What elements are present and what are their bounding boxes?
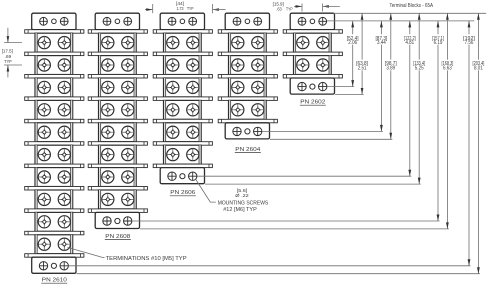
- PN 2608 bottom cap mounting hole: [115, 218, 120, 223]
- PN 2604 top cap screw right: [254, 17, 262, 25]
- PN 2610 terminal row 6: [35, 145, 73, 164]
- svg-text:TYP: TYP: [4, 59, 12, 64]
- PN 2608 barrier fin 8: [88, 187, 147, 191]
- terminal block PN 2610: [25, 13, 84, 283]
- PN 2608 terminal row 8: [99, 190, 137, 209]
- PN 2606 barrier fin 5: [153, 119, 212, 123]
- dimension [192] 7.56 overall to mounting screw centerline of PN 2610: [463, 21, 475, 266]
- label PN 2606: [170, 190, 196, 196]
- PN 2602 top end section: [290, 13, 334, 30]
- PN 2608 top cap screw left: [103, 17, 111, 25]
- PN 2604 top end section: [225, 13, 269, 30]
- extension line from PN 2604 mounting screw centerline: [262, 130, 383, 132]
- PN 2606 terminal row 4: [164, 100, 202, 119]
- PN 2606 barrier fin 1: [153, 30, 212, 34]
- PN 2610 bottom cap screw left: [39, 262, 47, 270]
- extension line from PN 2610 bottom edge: [77, 273, 480, 275]
- terminal block PN 2604: [218, 13, 277, 153]
- svg-text:#12 [M6] TYP: #12 [M6] TYP: [223, 207, 257, 213]
- PN 2606 barrier fin 3: [153, 75, 212, 79]
- PN 2604 bottom cap screw left: [233, 127, 241, 135]
- PN 2606 barrier fin 7: [153, 164, 212, 168]
- PN 2604 terminal row 4: [229, 100, 267, 119]
- PN 2606 top end section: [160, 13, 204, 30]
- terminal block PN 2602: [283, 13, 342, 105]
- PN 2606 terminal row 6: [164, 145, 202, 164]
- svg-text:8.01: 8.01: [474, 66, 483, 72]
- PN 2606 terminal row 1: [164, 33, 202, 52]
- svg-text:TERMINATIONS #10 [M5] TYP: TERMINATIONS #10 [M5] TYP: [106, 256, 187, 262]
- terminal block PN 2606: [153, 13, 212, 196]
- terminal block PN 2608: [88, 13, 147, 240]
- extension line from PN 2608 bottom edge: [140, 228, 449, 230]
- PN 2606 barrier fin 6: [153, 142, 212, 146]
- dimension [168.3] 6.63 overall length of PN 2608: [442, 13, 454, 229]
- PN 2604 terminal row 1: [229, 33, 267, 52]
- PN 2610 terminal row 4: [35, 100, 73, 119]
- PN 2608 terminal row 3: [99, 78, 137, 97]
- svg-text:3.89: 3.89: [386, 66, 395, 72]
- dimension [44] 1.73 TYP block width: [145, 1, 226, 13]
- label PN 2610: [41, 278, 67, 284]
- PN 2604 top cap mounting hole: [245, 19, 250, 24]
- svg-text:2.51: 2.51: [358, 66, 367, 72]
- svg-text:.63: .63: [276, 6, 282, 11]
- PN 2608 barrier fin 7: [88, 164, 147, 168]
- PN 2610 barrier fin 9: [25, 209, 84, 213]
- PN 2606 bottom cap screw left: [168, 172, 176, 180]
- PN 2608 bottom end section: [95, 212, 139, 228]
- PN 2608 terminal row 7: [99, 168, 137, 187]
- PN 2610 barrier fin 3: [25, 75, 84, 79]
- PN 2604 terminal row 3: [229, 78, 267, 97]
- extension line from PN 2602 bottom edge: [335, 94, 364, 96]
- PN 2610 terminal row 3: [35, 78, 73, 97]
- PN 2604 bottom cap screw right: [254, 127, 262, 135]
- PN 2608 barrier fin 6: [88, 142, 147, 146]
- dimension [87.3] 3.44 overall to mounting screw centerline of PN 2604: [376, 21, 388, 131]
- PN 2608 terminal row 2: [99, 56, 137, 75]
- PN 2602 terminal row 2: [294, 56, 332, 75]
- PN 2610 barrier fin 4: [25, 97, 84, 101]
- PN 2604 barrier fin 2: [218, 52, 277, 56]
- svg-text:PN 2602: PN 2602: [300, 100, 325, 106]
- PN 2602 bottom cap mounting hole: [310, 84, 315, 89]
- svg-text:TYP: TYP: [187, 6, 194, 11]
- PN 2610 barrier fin 8: [25, 187, 84, 191]
- PN 2610 terminal row 8: [35, 190, 73, 209]
- svg-text:7.56: 7.56: [465, 40, 474, 46]
- PN 2610 top cap screw right: [60, 17, 68, 25]
- extension line from PN 2606 mounting screw centerline: [197, 175, 411, 177]
- PN 2610 barrier fin 11: [25, 254, 84, 258]
- PN 2610 terminal row 2: [35, 56, 73, 75]
- PN 2606 barrier fin 4: [153, 97, 212, 101]
- PN 2610 barrier fin 10: [25, 231, 84, 235]
- reference line: top cap screw centerline datum: [327, 20, 474, 22]
- dimension [15.9] .63 TYP screw spacing: [273, 2, 340, 12]
- PN 2606 terminal row 5: [164, 123, 202, 142]
- PN 2610 barrier fin 7: [25, 164, 84, 168]
- PN 2608 terminal row 5: [99, 123, 137, 142]
- PN 2610 terminal row 1: [35, 33, 73, 52]
- PN 2606 top cap screw right: [189, 17, 197, 25]
- dimension [203.4] 8.01 overall length of PN 2610: [473, 13, 485, 273]
- PN 2606 barrier fin 2: [153, 52, 212, 56]
- PN 2606 bottom cap screw right: [189, 172, 197, 180]
- PN 2608 barrier fin 5: [88, 119, 147, 123]
- PN 2610 terminal row 10: [35, 235, 73, 254]
- PN 2606 bottom end section: [160, 168, 204, 184]
- PN 2602 top cap mounting hole: [310, 19, 315, 24]
- svg-text:MOUNTING SCREWS: MOUNTING SCREWS: [218, 201, 269, 207]
- leader line to terminal screw of PN 2610: [68, 247, 105, 257]
- PN 2608 top cap mounting hole: [115, 19, 120, 24]
- PN 2602 barrier fin 2: [283, 52, 342, 56]
- extension line from PN 2608 mounting screw centerline: [132, 220, 439, 222]
- svg-text:3.44: 3.44: [377, 40, 386, 46]
- dimension [17.5] .69 TYP terminal pitch: [2, 28, 22, 78]
- PN 2602 bottom cap screw left: [298, 82, 306, 90]
- reference line: top of end section datum: [333, 12, 486, 14]
- svg-text:PN 2606: PN 2606: [170, 190, 195, 196]
- PN 2610 barrier fin 5: [25, 119, 84, 123]
- PN 2608 terminal row 4: [99, 100, 137, 119]
- PN 2606 terminal row 3: [164, 78, 202, 97]
- PN 2602 barrier fin 3: [283, 75, 342, 79]
- PN 2608 terminal row 6: [99, 145, 137, 164]
- leader line to mounting screw of PN 2606: [196, 179, 216, 202]
- label PN 2608: [105, 234, 131, 240]
- PN 2602 top cap screw left: [298, 17, 306, 25]
- svg-text:PN 2604: PN 2604: [235, 147, 261, 153]
- dimension [157.1] 6.19 overall to mounting screw centerline of PN 2608: [432, 21, 444, 221]
- PN 2610 top cap screw left: [40, 17, 48, 25]
- svg-text:PN 2610: PN 2610: [42, 278, 67, 284]
- PN 2604 barrier fin 1: [218, 30, 277, 34]
- svg-text:6.63: 6.63: [443, 66, 452, 72]
- svg-text:5.25: 5.25: [415, 66, 424, 72]
- PN 2602 bottom end section: [290, 78, 334, 94]
- PN 2602 top cap screw right: [319, 17, 327, 25]
- extension line from PN 2602 mounting screw centerline: [327, 86, 354, 88]
- svg-text:[5.6]: [5.6]: [237, 188, 248, 194]
- svg-text:1.73: 1.73: [177, 6, 184, 11]
- svg-text:Terminal Blocks - 65A: Terminal Blocks - 65A: [390, 3, 434, 9]
- svg-text:2.06: 2.06: [348, 40, 357, 46]
- label PN 2604: [235, 147, 261, 153]
- extension line from PN 2610 mounting screw centerline: [69, 265, 471, 267]
- extension line from PN 2604 bottom edge: [270, 138, 392, 140]
- PN 2610 bottom cap screw right: [60, 262, 68, 270]
- PN 2608 barrier fin 4: [88, 97, 147, 101]
- PN 2606 top cap screw left: [168, 17, 176, 25]
- PN 2610 terminal row 9: [35, 212, 73, 231]
- svg-text:TYP: TYP: [286, 6, 293, 11]
- PN 2608 terminal row 1: [99, 33, 137, 52]
- svg-text:Ø .22: Ø .22: [235, 193, 249, 199]
- PN 2604 barrier fin 4: [218, 97, 277, 101]
- PN 2604 terminal row 2: [229, 56, 267, 75]
- PN 2610 barrier fin 6: [25, 142, 84, 146]
- PN 2608 bottom cap screw right: [124, 217, 132, 225]
- PN 2604 bottom end section: [225, 123, 269, 139]
- dimension [52.4] 2.06 overall to mounting screw centerline of PN 2602: [347, 21, 359, 87]
- PN 2606 top cap mounting hole: [180, 19, 185, 24]
- PN 2608 barrier fin 1: [88, 30, 147, 34]
- PN 2608 bottom cap screw left: [103, 217, 111, 225]
- PN 2610 barrier fin 1: [25, 30, 84, 34]
- PN 2610 bottom end section: [32, 257, 76, 273]
- PN 2608 barrier fin 9: [88, 209, 147, 213]
- PN 2608 top end section: [95, 13, 139, 30]
- PN 2604 bottom cap mounting hole: [245, 129, 250, 134]
- extension line from PN 2606 bottom edge: [205, 183, 421, 185]
- svg-text:6.19: 6.19: [434, 40, 443, 46]
- PN 2602 terminal row 1: [294, 33, 332, 52]
- PN 2604 barrier fin 3: [218, 75, 277, 79]
- dimension [122.2] 4.81 overall to mounting screw centerline of PN 2606: [404, 21, 416, 176]
- PN 2610 top cap mounting hole: [52, 19, 57, 24]
- PN 2608 barrier fin 2: [88, 52, 147, 56]
- PN 2608 barrier fin 3: [88, 75, 147, 79]
- PN 2608 top cap screw right: [124, 17, 132, 25]
- PN 2610 barrier fin 2: [25, 52, 84, 56]
- PN 2602 bottom cap screw right: [319, 82, 327, 90]
- svg-text:4.81: 4.81: [405, 40, 414, 46]
- PN 2610 terminal row 5: [35, 123, 73, 142]
- PN 2606 terminal row 2: [164, 56, 202, 75]
- PN 2610 terminal row 7: [35, 168, 73, 187]
- PN 2610 top end section: [32, 13, 76, 30]
- PN 2604 top cap screw left: [233, 17, 241, 25]
- dimension [63.8] 2.51 overall length of PN 2602: [356, 13, 368, 94]
- dimension [98.7] 3.89 overall length of PN 2604: [385, 13, 397, 139]
- label PN 2602: [300, 100, 326, 106]
- dimension [133.4] 5.25 overall length of PN 2606: [413, 13, 425, 184]
- PN 2602 barrier fin 1: [283, 30, 342, 34]
- PN 2606 bottom cap mounting hole: [180, 174, 185, 179]
- PN 2604 barrier fin 5: [218, 119, 277, 123]
- PN 2610 bottom cap mounting hole: [51, 263, 56, 268]
- svg-text:PN 2608: PN 2608: [105, 234, 130, 240]
